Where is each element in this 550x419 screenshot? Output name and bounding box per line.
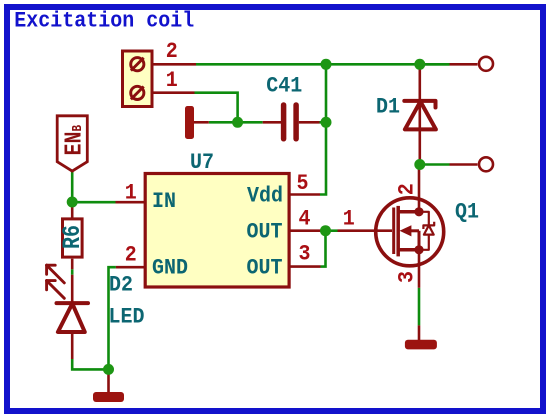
svg-text:5: 5 — [297, 171, 309, 196]
svg-text:2: 2 — [166, 39, 178, 64]
svg-text:OUT: OUT — [247, 219, 283, 244]
svg-text:3: 3 — [394, 271, 419, 283]
svg-text:LED: LED — [109, 304, 145, 329]
svg-text:1: 1 — [343, 206, 355, 231]
svg-text:Excitation coil: Excitation coil — [14, 8, 194, 33]
svg-text:R6: R6 — [58, 225, 87, 249]
svg-text:2: 2 — [394, 183, 419, 195]
svg-text:GND: GND — [152, 255, 188, 280]
svg-text:IN: IN — [152, 189, 176, 214]
svg-text:Vdd: Vdd — [247, 183, 283, 208]
svg-text:4: 4 — [299, 206, 311, 231]
svg-text:3: 3 — [299, 241, 311, 266]
svg-text:1: 1 — [166, 68, 178, 93]
svg-text:2: 2 — [125, 242, 137, 267]
svg-text:U7: U7 — [190, 150, 214, 175]
svg-text:D1: D1 — [376, 95, 400, 120]
svg-text:C41: C41 — [266, 73, 302, 98]
svg-text:1: 1 — [125, 180, 137, 205]
svg-text:OUT: OUT — [247, 255, 283, 280]
svg-text:D2: D2 — [109, 272, 133, 297]
svg-text:Q1: Q1 — [455, 199, 479, 224]
